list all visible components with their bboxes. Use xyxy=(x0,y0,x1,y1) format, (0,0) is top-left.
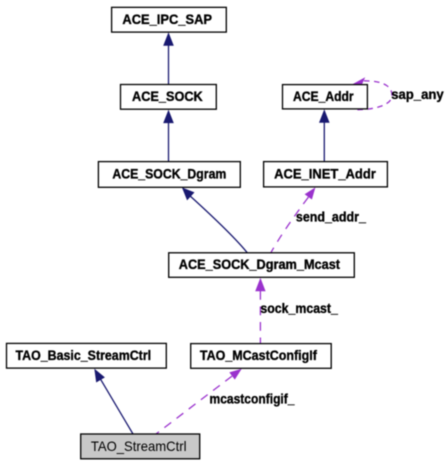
class box ACE_SOCK_Dgram_Mcast xyxy=(169,253,355,277)
class box ACE_IPC_SAP xyxy=(112,7,227,32)
wire: TAO_MCastConfigIf to ACE_SOCK_Dgram_Mcast (dashed usage edge sock_mcast_) xyxy=(255,278,265,344)
svg-text:TAO_StreamCtrl: TAO_StreamCtrl xyxy=(91,438,187,454)
svg-text:ACE_SOCK_Dgram_Mcast: ACE_SOCK_Dgram_Mcast xyxy=(179,256,341,272)
svg-text:ACE_SOCK: ACE_SOCK xyxy=(132,88,203,104)
class box ACE_Addr xyxy=(283,85,368,109)
wire: ACE_Addr self loop (dashed usage edge sap_any) xyxy=(352,77,393,110)
svg-text:mcastconfigif_: mcastconfigif_ xyxy=(210,391,295,407)
class box TAO_StreamCtrl (current class, grey) xyxy=(81,434,200,459)
svg-text:sock_mcast_: sock_mcast_ xyxy=(260,300,338,316)
svg-text:TAO_MCastConfigIf: TAO_MCastConfigIf xyxy=(200,347,317,363)
wire: ACE_SOCK to ACE_IPC_SAP (solid inheritance edge) xyxy=(163,32,174,84)
class box TAO_Basic_StreamCtrl xyxy=(7,343,167,368)
wire: ACE_SOCK_Dgram_Mcast to ACE_SOCK_Dgram (solid inheritance edge, diagonal) xyxy=(182,187,247,252)
wire: ACE_SOCK_Dgram_Mcast to ACE_INET_Addr (dashed usage edge send_addr_) xyxy=(271,187,316,252)
wire: ACE_INET_Addr to ACE_Addr (solid inheritance edge) xyxy=(319,109,330,161)
class box ACE_INET_Addr xyxy=(264,162,388,187)
svg-text:sap_any: sap_any xyxy=(391,86,444,102)
svg-text:ACE_SOCK_Dgram: ACE_SOCK_Dgram xyxy=(112,166,226,182)
svg-text:send_addr_: send_addr_ xyxy=(296,208,366,224)
svg-text:ACE_IPC_SAP: ACE_IPC_SAP xyxy=(122,11,212,27)
class box ACE_SOCK xyxy=(121,85,217,110)
wire: TAO_StreamCtrl to TAO_MCastConfigIf (dashed usage edge mcastconfigif_) xyxy=(156,369,242,434)
wire: ACE_SOCK_Dgram to ACE_SOCK (solid inheritance edge) xyxy=(163,110,174,162)
svg-text:ACE_Addr: ACE_Addr xyxy=(293,88,354,104)
svg-text:ACE_INET_Addr: ACE_INET_Addr xyxy=(274,165,376,181)
class box TAO_MCastConfigIf xyxy=(191,344,332,369)
svg-text:TAO_Basic_StreamCtrl: TAO_Basic_StreamCtrl xyxy=(16,347,152,363)
class box ACE_SOCK_Dgram xyxy=(98,162,240,188)
wire: TAO_StreamCtrl to TAO_Basic_StreamCtrl (solid inheritance edge, diagonal) xyxy=(94,369,133,434)
